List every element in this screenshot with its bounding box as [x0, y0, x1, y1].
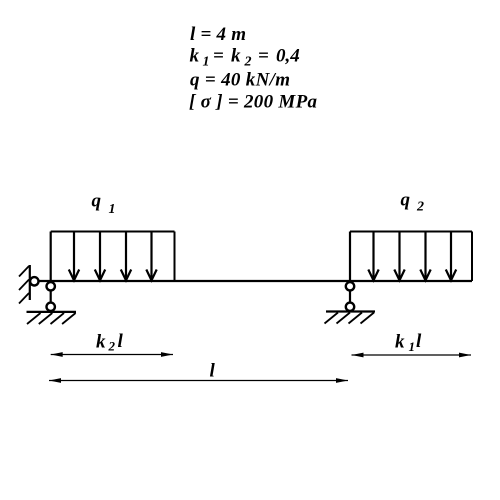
- support A ground hatch 2: [39, 313, 53, 324]
- dimension l line: [49, 378, 348, 383]
- svg-text:q: q: [401, 190, 411, 211]
- svg-text:k: k: [190, 46, 200, 67]
- support A upper hinge circle: [47, 282, 55, 290]
- beam: [39, 280, 473, 282]
- svg-text:k: k: [395, 332, 405, 353]
- given data text: [ sigma ] = 200 MPa: [189, 92, 318, 113]
- svg-text:2: 2: [416, 200, 424, 215]
- dimension k2l label: [96, 331, 124, 354]
- distributed load q1 outline: [51, 232, 175, 282]
- support A ground hatch 1: [27, 313, 41, 324]
- support B link bar: [349, 232, 351, 312]
- load q1 arrow 2: [95, 232, 105, 281]
- support B ground hatch 2: [337, 313, 351, 324]
- svg-text:[ σ ] = 200 MPa: [ σ ] = 200 MPa: [189, 92, 318, 113]
- support B ground hatch 1: [325, 313, 339, 324]
- given data text: q = 40 kN/m: [190, 70, 290, 91]
- svg-text:q: q: [92, 191, 102, 212]
- dimension k1l label: [395, 331, 422, 354]
- dimension k2l line: [51, 352, 173, 357]
- support B ground hatch 4: [361, 313, 375, 324]
- svg-text:l = 4 m: l = 4 m: [190, 24, 246, 45]
- support A ground hatch 3: [51, 313, 65, 324]
- label q1: [92, 191, 116, 218]
- load q2 arrow 3: [420, 232, 430, 281]
- support B upper hinge circle: [346, 282, 354, 290]
- support A wall hatch 3: [19, 293, 29, 304]
- load q1 arrow 4: [146, 232, 156, 281]
- svg-text:l: l: [416, 331, 422, 352]
- support A pin circle: [30, 277, 38, 285]
- load q1 arrow 3: [121, 232, 131, 281]
- svg-text:1: 1: [109, 202, 116, 217]
- support A lower hinge circle: [47, 303, 55, 311]
- svg-text:=: =: [258, 46, 269, 67]
- svg-text:2: 2: [108, 339, 116, 354]
- support B ground line: [326, 310, 375, 312]
- svg-text:0,4: 0,4: [276, 46, 300, 67]
- distributed load q2 outline: [350, 232, 472, 282]
- support A link bar: [50, 232, 52, 312]
- svg-text:2: 2: [244, 55, 252, 70]
- support B lower hinge circle: [346, 303, 354, 311]
- svg-text:1: 1: [203, 55, 210, 70]
- svg-text:l: l: [210, 361, 216, 382]
- given data text: l = 4 m: [190, 24, 246, 45]
- load q2 arrow 4: [446, 232, 456, 281]
- svg-text:l: l: [118, 331, 124, 352]
- support A wall hatch 2: [19, 280, 29, 291]
- dimension l label: [210, 361, 216, 382]
- support A ground hatch 4: [62, 313, 76, 324]
- svg-text:1: 1: [409, 339, 416, 354]
- svg-text:k: k: [231, 46, 241, 67]
- load q1 arrow 1: [69, 232, 79, 281]
- svg-text:q = 40 kN/m: q = 40 kN/m: [190, 70, 290, 91]
- support A wall line: [29, 265, 31, 300]
- svg-text:k: k: [96, 332, 106, 353]
- given data text: k1 = k2 = 0,4: [190, 46, 300, 70]
- label q2: [401, 190, 425, 215]
- support A ground line: [27, 311, 77, 313]
- load q2 arrow 2: [394, 232, 404, 281]
- support A wall hatch 1: [19, 266, 29, 277]
- svg-text:=: =: [213, 46, 224, 67]
- load q2 arrow 1: [368, 232, 378, 281]
- support B ground hatch 3: [349, 313, 363, 324]
- dimension k1l line: [352, 353, 472, 358]
